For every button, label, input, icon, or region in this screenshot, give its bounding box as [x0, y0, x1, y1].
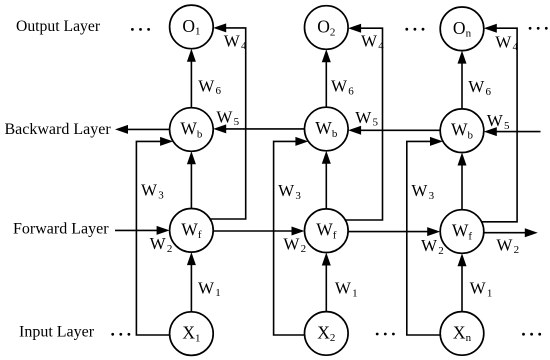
node Wb (col 2) — [305, 107, 349, 151]
wire W5 arrow Wb2 to Wb1 — [213, 124, 304, 133]
node X2 — [305, 312, 349, 356]
svg-text:Forward Layer: Forward Layer — [13, 221, 109, 238]
svg-text:Backward Layer: Backward Layer — [5, 121, 112, 138]
wire W6 arrow Wb to O1 (col 1) — [187, 49, 196, 108]
dots bottom-middle — [376, 333, 379, 336]
dots top-middle — [405, 28, 408, 31]
dots top-left — [131, 28, 134, 31]
svg-text:Output Layer: Output Layer — [16, 18, 101, 35]
wire W6 arrow Wb to O2 (col 2) — [322, 49, 331, 107]
wire W2 output arrow from Wf3 — [484, 228, 538, 237]
wire W4 path Wf to O1 (col 1) — [210, 23, 246, 219]
wire W5 arrow Wb3 to Wb2 — [348, 126, 440, 135]
wire W1 arrow X1 to Wf (col 1) — [187, 252, 196, 312]
wire W5 input arrow into Wb3 — [484, 127, 541, 136]
node Wb (col 3) — [440, 109, 484, 153]
dots bottom-left — [111, 333, 114, 336]
wire W2 arrow Wf2 to Wf3 — [348, 227, 440, 236]
wire W4 path Wf to On (col 3) — [482, 24, 518, 222]
dots bottom-right — [522, 333, 525, 336]
wire W6 arrow Wb to On (col 3) — [458, 51, 467, 109]
wire W3 path X1 to Wb (col 1) — [136, 137, 173, 335]
dots top-right — [529, 27, 532, 30]
wire Wf to Wb arrow (col 2) — [322, 151, 331, 209]
node Wf (col 3) — [440, 210, 484, 254]
wire Wf to Wb arrow (col 3) — [458, 153, 467, 210]
wire W2 arrow Wf1 to Wf2 — [213, 227, 304, 236]
wire W1 arrow Xn to Wf (col 3) — [458, 253, 467, 311]
node Wb (col 1) — [170, 108, 214, 152]
wire W1 arrow X2 to Wf (col 2) — [322, 253, 331, 312]
node Wf (col 2) — [305, 209, 349, 253]
wire W3 path X2 to Wb (col 2) — [274, 137, 309, 335]
node X1 — [170, 312, 214, 356]
wire W4 path Wf to O2 (col 2) — [345, 24, 382, 220]
node O2 — [305, 6, 349, 50]
node Wf (col 1) — [170, 209, 214, 253]
wire backward-layer output arrow from Wb1 — [115, 125, 170, 134]
node O1 — [170, 5, 214, 49]
svg-text:Input Layer: Input Layer — [19, 324, 95, 341]
wire W3 path Xn to Wb (col 3) — [407, 137, 443, 335]
wire W2 input arrow into Wf1 — [115, 226, 170, 235]
node On — [440, 7, 484, 51]
node Xn — [440, 312, 484, 356]
wire Wf to Wb arrow (col 1) — [187, 151, 196, 208]
